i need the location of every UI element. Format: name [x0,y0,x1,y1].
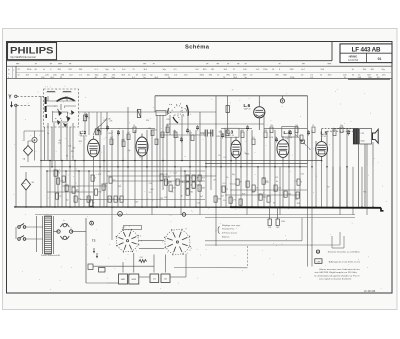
svg-text:R19: R19 [168,181,171,183]
svg-text:a: a [13,69,14,71]
svg-text:UAF 42: UAF 42 [244,107,252,110]
svg-text:01: 01 [378,57,382,61]
svg-text:C14: C14 [68,146,71,148]
label L.3 [225,128,239,137]
svg-text:Valeurs mesurées avec l'indica: Valeurs mesurées avec l'indicateur de te… [319,268,360,271]
svg-text:R28: R28 [217,136,220,138]
svg-text:b: b [64,220,65,222]
svg-text:Réglage sans sign.: Réglage sans sign. [222,225,241,227]
svg-text:4n7: 4n7 [59,140,62,142]
svg-text:10k: 10k [78,198,81,200]
svg-text:1: 1 [167,252,168,254]
ground bus [14,207,384,211]
socket terminal strip [124,226,166,273]
wires from tuner unit [48,96,73,161]
svg-text:a: a [92,202,93,204]
coil L1a [47,91,55,92]
svg-text:x: x [182,182,183,184]
svg-text:R28: R28 [242,193,245,195]
wire anode V6 [226,96,229,130]
revision tick row [16,63,331,65]
svg-text:8n: 8n [245,153,247,155]
svg-text:6k8: 6k8 [202,187,205,189]
dial lamp wiring [112,212,164,249]
drawing frame [7,42,393,294]
svg-text:W1: W1 [32,182,35,184]
svg-text:Schéma: Schéma [185,45,210,51]
pickup jack J1 [280,96,284,103]
svg-text:germ: germ [22,182,26,185]
svg-text:Balance: Balance [222,237,230,239]
svg-text:0.1: 0.1 [113,179,116,181]
wire antenna down-lead [15,105,17,207]
svg-text:L.6: L.6 [244,103,251,108]
svg-text:9: 9 [93,202,94,204]
svg-text:R19: R19 [219,132,222,134]
svg-text:1n: 1n [112,198,114,200]
svg-text:47: 47 [240,181,242,183]
svg-text:8n: 8n [95,128,97,130]
svg-text:1M: 1M [118,198,121,200]
svg-text:50: 50 [218,155,220,157]
svg-text:R19: R19 [79,141,82,143]
svg-text:50: 50 [139,156,141,158]
label L.2 [80,130,89,138]
band switch S2 [156,103,188,123]
svg-text:8n: 8n [181,195,183,197]
decoupling capacitors C34 C35 [268,208,285,230]
svg-text:8n: 8n [273,202,275,204]
svg-text:5p: 5p [333,128,335,130]
svg-text:2n2: 2n2 [278,187,281,189]
svg-text:1k: 1k [190,184,192,186]
svg-text:R19: R19 [108,133,111,135]
tube V2 UF41 [136,134,148,161]
wiring verticals to ground bus [41,160,373,267]
svg-text:PHILIPS: PHILIPS [10,45,54,56]
scan speckle and stray labels [14,86,387,290]
svg-text:4: 4 [191,248,192,250]
coil L1b [63,91,71,92]
antenna terminal Y [8,95,44,101]
power transformer T1 [41,216,61,257]
heater supply line [35,214,355,216]
svg-text:47k: 47k [173,187,176,189]
svg-text:sans signal sur la prise d'ant: sans signal sur la prise d'antenne [319,278,352,281]
svg-text:R28: R28 [297,203,300,205]
svg-text:1: 1 [162,241,163,243]
wires left column [24,131,44,141]
loudspeaker LS1 [372,129,378,143]
svg-text:P.U.: P.U. [363,191,367,193]
svg-text:x: x [57,178,58,180]
tube V5 UY41 [316,138,328,160]
svg-text:3k3: 3k3 [288,193,291,195]
svg-text:R19: R19 [166,119,169,121]
svg-text:12.03.54: 12.03.54 [348,58,359,62]
svg-text:R19: R19 [265,182,268,184]
small resistor block [93,266,154,272]
svg-text:5p: 5p [59,195,61,197]
svg-text:4: 4 [187,253,188,255]
svg-text:0.1: 0.1 [282,154,285,156]
svg-text:2k2: 2k2 [168,176,171,178]
svg-text:1k: 1k [180,137,182,139]
resistor R22 small box [301,140,305,144]
rectifier cell GR1 [119,262,128,284]
svg-text:C14: C14 [79,135,82,137]
svg-text:2k2: 2k2 [252,192,255,194]
svg-text:P.U.: P.U. [295,181,299,183]
connection wires power section [107,254,186,283]
svg-text:27k: 27k [160,198,163,200]
svg-text:70p: 70p [295,199,298,201]
svg-text:S2: S2 [177,137,179,139]
svg-text:Tensions mesurées au contrôleu: Tensions mesurées au contrôleur [328,251,360,254]
svg-text:C31: C31 [301,173,304,175]
svg-text:Position P.U.: Position P.U. [222,228,235,231]
svg-text:9: 9 [95,177,96,179]
trimmer capacitor C5 [137,110,141,118]
label L.5 [321,130,328,138]
wiring verticals [41,96,373,207]
svg-text:27k: 27k [171,191,174,193]
svg-text:C7: C7 [87,117,89,119]
svg-text:30p: 30p [263,196,266,198]
legend paragraph [315,268,361,281]
svg-text:1500: 1500 [281,221,285,223]
tube V6 indicator [254,96,265,130]
svg-text:0.1: 0.1 [224,157,227,159]
svg-text:T.2: T.2 [92,239,96,243]
svg-text:C12: C12 [148,128,151,130]
svg-text:le commutateur de gamme d'ond: le commutateur de gamme d'ondes sur P.U.… [315,274,360,277]
junction dots [15,160,374,208]
svg-text:LF 443 AB: LF 443 AB [352,46,381,53]
svg-text:C18: C18 [197,203,200,205]
svg-text:S2: S2 [66,156,68,158]
svg-text:C39: C39 [361,133,364,135]
svg-text:3k3: 3k3 [218,198,221,200]
svg-text:G.O.: G.O. [83,120,87,122]
capacitor group upper [85,113,350,147]
output transformer T3 secondary [360,129,372,145]
cell U1 [150,262,159,283]
svg-text:6: 6 [190,250,191,252]
svg-text:O.C.: O.C. [222,183,226,185]
coupling capacitor C22 [211,130,213,137]
svg-text:C14: C14 [149,183,152,185]
component value strip [7,66,393,79]
svg-text:C12: C12 [275,177,278,179]
svg-text:8n: 8n [47,133,49,135]
filter resistor R30 [88,264,93,270]
svg-text:S2: S2 [173,131,175,133]
svg-text:320: 320 [121,140,124,142]
svg-text:C35: C35 [276,227,279,229]
resistor R31 zigzag [139,260,147,263]
tube socket V1 heater [116,226,142,252]
svg-text:C25: C25 [103,120,106,122]
svg-text:70: 70 [133,125,135,127]
label T.2 [92,239,98,259]
svg-text:47k: 47k [233,199,236,201]
svg-text:3: 3 [129,226,130,228]
wire HT top run [155,96,308,112]
rectifier cell GR2 [129,274,139,284]
tuner internal wiring [46,101,76,106]
svg-text:27k: 27k [213,179,216,181]
svg-text:C52: C52 [140,257,143,259]
svg-text:4n7: 4n7 [127,132,130,134]
svg-text:320: 320 [71,151,74,153]
svg-text:HR/MG: HR/MG [349,55,358,59]
svg-text:10k: 10k [166,125,169,127]
svg-text:Dpt SERVICE Central: Dpt SERVICE Central [11,55,37,59]
svg-text:30p: 30p [164,176,167,178]
svg-text:5p: 5p [226,188,228,190]
header band rule [7,42,333,61]
svg-text:47: 47 [190,177,192,179]
svg-text:GR2: GR2 [132,279,137,281]
resistor group grid bias [54,170,302,206]
svg-text:8: 8 [301,181,302,183]
svg-text:15: 15 [312,125,314,127]
wire to note box [174,218,344,268]
detector diode diamond [23,141,33,162]
svg-text:Bobinage du circuit ferrite en: Bobinage du circuit ferrite en est [329,260,361,263]
svg-text:100: 100 [347,130,350,132]
title block LF 443 AB [340,44,392,63]
svg-text:ger: ger [24,148,27,150]
tuner unit dashed enclosure [44,89,79,127]
svg-text:M: M [119,214,121,216]
pilot lamp E2 [182,213,186,217]
svg-text:3: 3 [122,227,123,229]
svg-text:x: x [104,139,105,141]
grid wire tube V1 [94,118,108,135]
wire grid bus [79,111,217,113]
wires below band switch S2 [157,115,188,207]
svg-text:1n: 1n [289,130,291,132]
Philips logo box [8,43,57,60]
svg-text:C12: C12 [233,184,236,186]
svg-text:390: 390 [98,191,101,193]
metal rectifier diamond W1 [22,172,35,207]
adjustment note [215,225,241,238]
svg-text:150: 150 [192,188,195,190]
svg-text:C34: C34 [268,227,271,229]
svg-text:5000: 5000 [361,141,365,143]
svg-text:4n7: 4n7 [82,131,85,133]
legend C38 symbol [315,259,361,264]
strip bottom emphasis [348,78,390,80]
svg-text:70p: 70p [232,174,235,176]
bridge rectifier [37,216,87,252]
svg-text:4n7: 4n7 [202,177,205,179]
coupling capacitor C21 [200,130,212,137]
svg-text:10k: 10k [295,125,298,127]
tube socket V2 heater [162,229,191,256]
svg-text:C14: C14 [285,138,288,140]
svg-text:0.5: 0.5 [252,137,255,139]
svg-text:C14: C14 [173,173,176,175]
svg-text:GR1: GR1 [121,279,126,281]
svg-text:2k2: 2k2 [66,199,69,201]
svg-text:50: 50 [226,177,228,179]
svg-text:320: 320 [146,120,149,122]
svg-text:2k2: 2k2 [72,148,75,150]
label L.6 [244,103,252,111]
svg-text:70p: 70p [127,150,130,152]
svg-text:475 kc/s (coul.): 475 kc/s (coul.) [222,232,237,234]
HT feed wire [86,218,107,283]
band switch S1 tuning gang [46,97,75,128]
svg-text:75: 75 [256,187,258,189]
diagonal link wire [295,135,311,151]
svg-text:1M: 1M [196,177,199,179]
mains switch S3 [16,224,43,241]
svg-text:P.U.: P.U. [263,178,267,180]
oscillator coil [32,131,37,161]
earth terminal [10,102,30,108]
svg-text:2k2: 2k2 [135,202,138,204]
svg-text:6k8: 6k8 [264,130,267,132]
svg-text:C14: C14 [223,200,226,202]
svg-text:4n7: 4n7 [200,196,203,198]
svg-text:4n7: 4n7 [221,196,224,198]
svg-text:O.C.: O.C. [76,171,80,173]
svg-text:320: 320 [164,197,167,199]
svg-text:x: x [190,114,191,116]
svg-text:4n7: 4n7 [105,183,108,185]
fuse holder F1 [90,221,94,225]
wires to output transformer [322,129,365,207]
svg-text:4: 4 [140,236,141,238]
svg-text:C12: C12 [164,174,167,176]
svg-text:x: x [109,198,110,200]
svg-text:68k: 68k [190,191,193,193]
tube V4 UL41 [277,136,289,161]
svg-text:2k2: 2k2 [87,198,90,200]
svg-text:8: 8 [186,229,187,231]
svg-text:G.O.: G.O. [235,179,239,181]
svg-text:1: 1 [136,251,137,253]
svg-text:70p: 70p [289,137,292,139]
secondary line [205,217,355,219]
wiring horizontals [16,124,353,207]
tube V3 UBC41 [231,137,241,162]
svg-text:Rothera & Auersthal AG: Rothera & Auersthal AG [41,254,61,257]
svg-text:320: 320 [118,186,121,188]
svg-text:R19: R19 [76,191,79,193]
grid capacitor cluster [84,112,102,135]
svg-text:320: 320 [150,189,153,191]
svg-text:C18: C18 [188,132,191,134]
svg-text:1M: 1M [211,69,214,71]
legend measured voltage symbol [316,250,360,254]
svg-text:8n: 8n [108,171,110,173]
svg-text:sion GM 7635. Réglé branché: sion GM 7635. Réglé branché sur 220 Volt… [315,271,358,274]
svg-text:27k: 27k [110,120,113,122]
svg-text:30p: 30p [340,125,343,127]
svg-text:x: x [77,186,78,188]
svg-text:27k: 27k [231,154,234,156]
svg-text:4n7: 4n7 [110,137,113,139]
svg-text:10k: 10k [241,130,244,132]
svg-text:R11: R11 [275,140,278,142]
svg-text:320: 320 [154,130,157,132]
tube V1 UCH42 [88,136,100,161]
cell U2 [161,262,170,283]
svg-text:LF 443 AB: LF 443 AB [364,290,376,293]
svg-text:a: a [263,192,264,194]
svg-text:8n: 8n [276,181,278,183]
svg-text:R7: R7 [327,186,329,188]
svg-text:a: a [185,156,186,158]
svg-text:1n: 1n [58,172,60,174]
label L.4 box [282,127,298,137]
svg-text:x: x [85,139,86,141]
output transformer T3 primary [353,129,358,145]
svg-text:150: 150 [270,125,273,127]
svg-text:O.C.: O.C. [149,192,153,194]
svg-text:3: 3 [124,227,125,229]
svg-text:C12: C12 [98,174,101,176]
